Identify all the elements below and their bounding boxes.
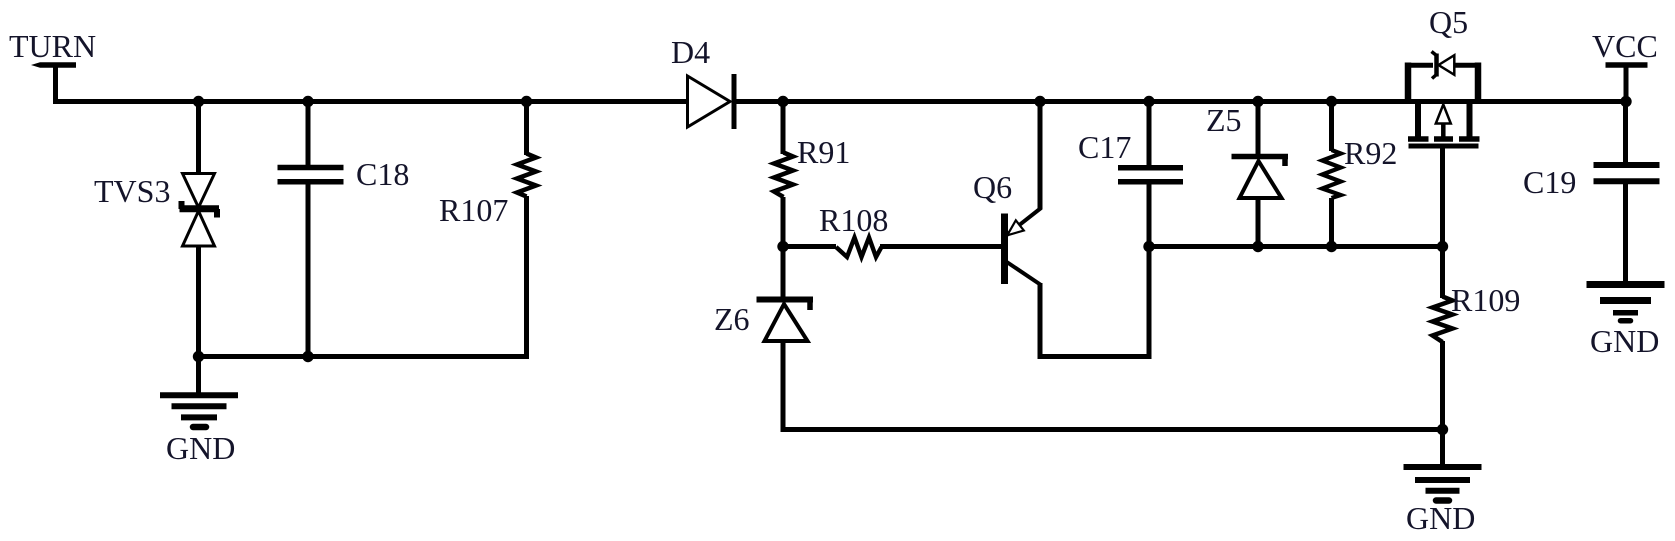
svg-text:R109: R109 [1451,282,1520,318]
wire C17 bottom lead [1147,182,1152,249]
zener Z6 [757,300,814,342]
svg-text:R91: R91 [797,134,850,170]
wire main rail right of D4 [733,99,1626,104]
node C17 bottom [1143,241,1154,252]
wire R108 left lead [783,244,836,249]
wire R107 top lead [524,102,529,156]
svg-text:Q6: Q6 [973,169,1012,205]
wire bottom long rail [783,427,1443,432]
wire C17 top lead [1147,102,1152,169]
svg-text:R92: R92 [1344,135,1397,171]
svg-text:GND: GND [1590,323,1659,359]
svg-text:D4: D4 [671,34,710,70]
node VCC [1620,96,1631,107]
wire Z6 top lead [781,247,786,301]
port TURN [9,28,96,102]
wire Q6 collector riser [1038,283,1043,359]
wire Q6 collector bottom link [1038,354,1150,359]
wire TVS3 top lead [196,102,201,175]
wire R92 bottom lead [1329,198,1334,249]
svg-text:TURN: TURN [9,28,96,64]
resistor R108 [836,238,882,258]
svg-text:C18: C18 [356,156,409,192]
resistor R107 [517,154,536,197]
wire C18 bottom lead [306,182,311,359]
wire Z5 bottom lead [1256,198,1261,249]
node Q5 gate R109 [1437,241,1448,252]
wire Q6 emitter riser [1038,102,1043,210]
wire Q6 collector up link [1147,247,1152,360]
node Z5 bottom [1252,241,1263,252]
wire C18 top lead [306,102,311,167]
svg-text:TVS3: TVS3 [94,173,170,209]
wire R91 top lead [781,102,786,155]
mosfet Q5 [1408,103,1480,146]
node TVS3 top [193,96,204,107]
svg-text:R108: R108 [819,202,888,238]
wire middle rail [1149,244,1443,249]
wire R109 top lead [1440,247,1445,299]
tvs TVS3 [180,174,220,247]
wire left ground rail [199,354,530,359]
node R91 R108 Z6 [777,241,788,252]
node R107 top [521,96,532,107]
wire main rail left of D4 [53,99,688,104]
svg-text:R107: R107 [439,192,508,228]
wire R107 bottom lead [524,196,529,359]
wire Z5 top lead [1256,102,1261,158]
node after D4 [777,96,788,107]
wire TVS3 bottom lead [196,246,201,359]
port VCC [1592,28,1658,102]
svg-text:GND: GND [166,430,235,466]
wire C19 bottom lead [1623,181,1628,282]
node C18 top [302,96,313,107]
wire GND stub right [1440,430,1445,466]
capacitor C19 [1594,165,1660,181]
wire R108 right lead to Q6 base [880,244,1002,249]
capacitor C17 [1118,168,1183,182]
node R92 top [1326,96,1337,107]
svg-text:Z5: Z5 [1206,102,1242,138]
capacitor C18 [278,168,344,182]
resistor R92 [1322,150,1341,198]
ground right [1404,467,1482,501]
node left rail TVS3 [193,351,204,362]
svg-text:Z6: Z6 [714,301,750,337]
svg-text:C19: C19 [1523,164,1576,200]
wire C19 top lead [1623,102,1628,166]
resistor R91 [774,153,793,198]
svg-text:VCC: VCC [1592,28,1658,64]
node C17 top [1143,96,1154,107]
body diode of Q5 [1405,52,1481,102]
svg-text:C17: C17 [1078,129,1131,165]
wire R109 bottom lead [1440,341,1445,432]
node R92 bottom [1326,241,1337,252]
node Z5 top [1252,96,1263,107]
zener Z5 [1232,157,1289,199]
diode D4 [688,74,735,129]
node left rail C18 [302,351,313,362]
ground C19 [1587,285,1665,321]
ground left [160,395,238,427]
node Q6 emitter top [1034,96,1045,107]
wire R91 bottom lead [781,197,786,250]
wire GND stub left [196,357,201,394]
transistor Q6 [1005,208,1042,285]
wire Q5 gate lead [1440,146,1445,249]
wire Z6 bottom lead [781,341,786,432]
svg-text:GND: GND [1406,500,1475,536]
resistor R109 [1433,297,1453,343]
svg-text:Q5: Q5 [1429,4,1468,40]
node R109 bottom [1437,424,1448,435]
wire R92 top lead [1329,102,1334,152]
